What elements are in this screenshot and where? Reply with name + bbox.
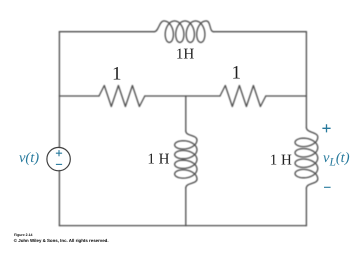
svg-text:vL(t): vL(t) (323, 150, 350, 169)
svg-text:v(t): v(t) (19, 150, 39, 166)
svg-text:© John Wiley & Sons, Inc. All: © John Wiley & Sons, Inc. All rights res… (14, 238, 109, 243)
svg-text:1: 1 (232, 63, 242, 84)
svg-text:Figure 2.14: Figure 2.14 (14, 233, 33, 237)
svg-text:1 H: 1 H (147, 151, 169, 167)
svg-text:1 H: 1 H (270, 153, 292, 169)
svg-text:1: 1 (112, 64, 122, 85)
svg-text:1H: 1H (176, 47, 195, 63)
